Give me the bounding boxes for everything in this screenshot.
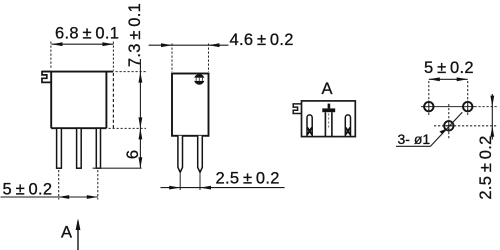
dimension 2.5±0.2 arrow right — [200, 186, 211, 190]
dimension 5±0.2 arrow right — [87, 195, 98, 199]
dimension 4.6±0.2 arrow left — [161, 43, 172, 47]
front view body — [42, 72, 113, 129]
dimension 4.6±0.2 extension right — [208, 44, 210, 73]
svg-text:A: A — [322, 80, 333, 98]
svg-text:2.5 ± 0.2: 2.5 ± 0.2 — [216, 169, 280, 187]
pcb hole 1 — [424, 102, 433, 111]
dimension 6.8±0.1 line — [52, 43, 114, 45]
svg-text:6.8 ± 0.1: 6.8 ± 0.1 — [55, 25, 119, 43]
dimension 5±0.2 line — [1, 196, 98, 198]
pcb dimension 2.5±0.2 line — [491, 94, 493, 140]
dimension 2.5±0.2 extension left — [179, 174, 181, 191]
pcb hole leader shelf — [396, 145, 431, 147]
dimension 6 line — [139, 128, 141, 168]
bottom view notch — [293, 104, 301, 114]
pcb hole leader line — [431, 112, 463, 146]
pcb dimension 5±0.2 arrow right — [457, 77, 468, 81]
dimension 7.3±0.1 arrow down — [139, 117, 143, 128]
front view leg 2 — [77, 128, 82, 168]
pcb hole 3 centerline horizontal — [434, 125, 498, 127]
svg-text:A: A — [61, 223, 72, 241]
side view leg 2 — [198, 136, 203, 173]
side view body — [172, 74, 209, 136]
svg-text:3- ø1: 3- ø1 — [398, 131, 431, 147]
dimension 7.3±0.1 extension top — [116, 71, 147, 73]
dimension 4.6±0.2 extension left — [171, 44, 173, 73]
bottom view pin 3 — [345, 115, 350, 137]
pcb hole centerline horizontal — [421, 106, 475, 108]
side view leg 1 — [178, 136, 183, 173]
dimension 6.8±0.1 arrow left — [52, 42, 63, 46]
pcb hole 2 — [463, 102, 472, 111]
svg-text:4.6 ± 0.2: 4.6 ± 0.2 — [230, 31, 294, 49]
svg-text:2.5 ± 0.2: 2.5 ± 0.2 — [477, 135, 495, 199]
dimension 6 arrow up — [139, 128, 143, 139]
svg-text:5 ± 0.2: 5 ± 0.2 — [424, 59, 474, 77]
svg-text:6: 6 — [124, 150, 142, 159]
dimension 7.3±0.1 line — [139, 59, 141, 128]
pcb dimension 5±0.2 arrow left — [429, 77, 440, 81]
dimension 4.6±0.2 arrow right — [209, 43, 220, 47]
front view leg 1 — [57, 128, 62, 168]
dimension 6 extension bottom — [93, 167, 142, 169]
dimension 5±0.2 arrow left — [58, 195, 69, 199]
dimension 2.5±0.2 line — [161, 187, 285, 189]
dimension 5±0.2 extension left — [58, 170, 60, 200]
view direction arrow — [77, 221, 79, 250]
pcb dimension 5±0.2 line — [429, 78, 468, 80]
front view side-adjust screw notch — [42, 72, 51, 83]
pcb dimension 2.5±0.2 arrow bottom — [490, 126, 494, 137]
front view hidden right edge — [112, 73, 114, 128]
pcb hole 2 extension — [467, 81, 469, 115]
svg-text:5 ± 0.2: 5 ± 0.2 — [3, 180, 53, 198]
side view adjustment screw — [194, 74, 205, 85]
bottom view body — [302, 101, 356, 137]
dimension 4.6±0.2 line — [149, 44, 229, 46]
pcb dimension 2.5±0.2 arrow top — [490, 96, 494, 107]
dimension 7.3±0.1 arrow up — [139, 72, 143, 83]
pcb hole 1 extension — [428, 81, 430, 115]
dimension 2.5±0.2 extension right — [199, 174, 201, 191]
dimension 6.8±0.1 arrow right — [102, 42, 113, 46]
dimension 6.8±0.1 extension right — [112, 42, 114, 71]
pcb hole 3 centerline vertical — [448, 104, 450, 140]
front view leg 3 — [96, 128, 100, 168]
bottom view pin 2 (center) — [325, 112, 332, 136]
pcb hole leader arrow — [439, 129, 446, 134]
dimension 2.5±0.2 arrow left — [169, 186, 180, 190]
pcb hole 3 — [444, 121, 453, 130]
dimension 5±0.2 extension right — [97, 170, 99, 200]
dimension 6 arrow down — [139, 157, 143, 168]
svg-text:7.3 ± 0.1: 7.3 ± 0.1 — [126, 3, 144, 67]
bottom view pin 1 — [307, 115, 312, 137]
dimension 6.8±0.1 extension left — [50, 42, 52, 70]
dimension 7.3±0.1 extension bottom — [109, 127, 147, 129]
